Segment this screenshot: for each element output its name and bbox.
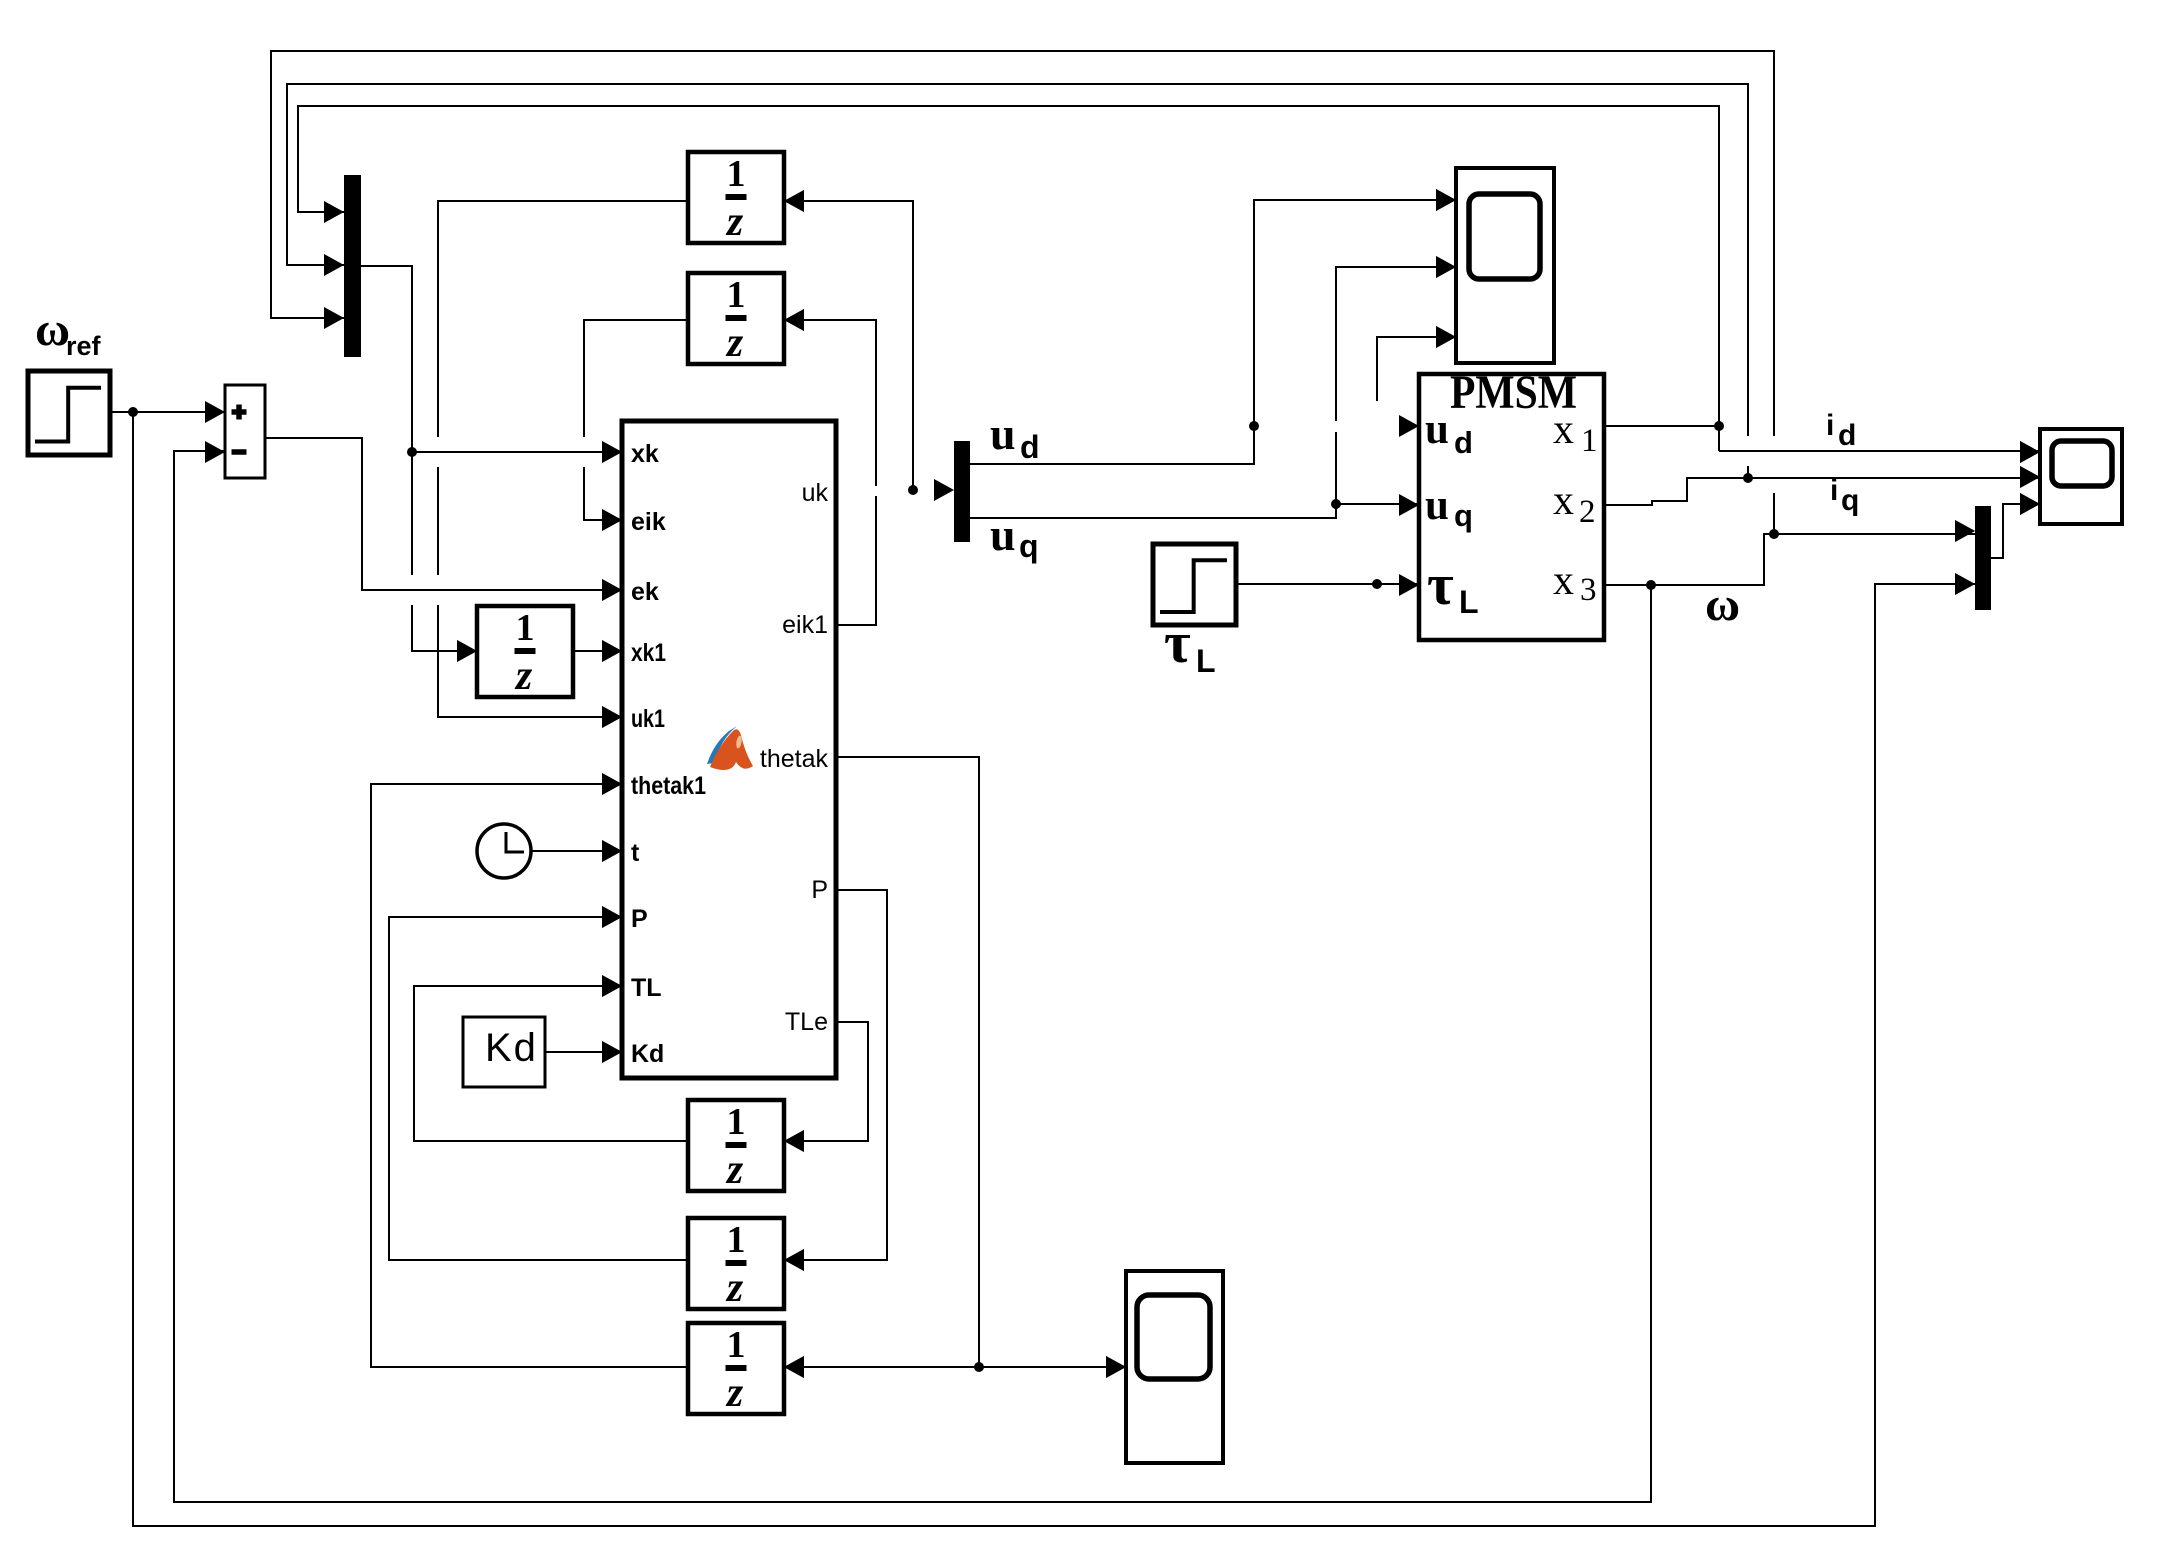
wire uq to PMSM uq — [970, 494, 1419, 518]
svg-text:τ: τ — [1427, 552, 1454, 617]
svg-text:Kd: Kd — [631, 1040, 664, 1068]
wire ud branch to PMSM (invisible in source figure; arrow only) — [1399, 415, 1419, 437]
svg-text:u: u — [1425, 482, 1449, 529]
step source wref — [28, 371, 110, 455]
wire D3 out to TL — [414, 975, 688, 1141]
wire x2 (iq) staircase to scope2 in2 — [1604, 466, 2040, 505]
svg-text:1: 1 — [727, 274, 746, 316]
svg-text:TLe: TLe — [785, 1008, 828, 1036]
svg-text:1: 1 — [727, 1324, 746, 1366]
svg-text:u: u — [990, 509, 1016, 560]
mux M1 — [324, 175, 361, 357]
svg-text:z: z — [725, 199, 744, 245]
svg-text:ref: ref — [66, 331, 102, 361]
svg-text:d: d — [1454, 425, 1473, 460]
wire wref feedback to mux2 in2 — [133, 412, 1975, 1526]
svg-text:2: 2 — [1579, 494, 1596, 530]
svg-text:uk1: uk1 — [631, 705, 665, 733]
unit delay D1 (uk to uk1) (1/z) — [688, 152, 804, 245]
label omega — [1705, 578, 1740, 631]
svg-text:3: 3 — [1580, 572, 1597, 608]
wire P out down to D4 — [784, 890, 887, 1271]
scope3 (thetak) — [1106, 1271, 1223, 1463]
svg-text:x: x — [1553, 407, 1574, 453]
svg-text:x: x — [1553, 558, 1574, 604]
wire id to scope2 in1 — [1719, 441, 2040, 463]
svg-text:z: z — [725, 1265, 744, 1311]
label iq — [1830, 474, 1859, 517]
svg-text:thetak: thetak — [760, 745, 829, 773]
svg-text:L: L — [1459, 584, 1479, 620]
wire uk to demux (horizontal invisible in source figure; dot and arrow only) — [908, 479, 954, 501]
svg-text:thetak1: thetak1 — [631, 772, 706, 800]
wire mux1 out to xk and to delay Dxk1 — [361, 266, 477, 662]
svg-text:z: z — [725, 1370, 744, 1416]
svg-text:ω: ω — [1705, 578, 1740, 631]
label ud — [990, 408, 1040, 465]
wire branch to xk input — [412, 441, 622, 463]
wire x1 to junction — [1604, 421, 1724, 431]
svg-text:L: L — [1196, 643, 1216, 679]
unit delay D3 (TLe to TL) (1/z) — [688, 1100, 804, 1193]
constant Kd — [463, 1017, 545, 1087]
svg-text:xk1: xk1 — [631, 639, 666, 667]
label wref — [35, 303, 102, 361]
controller input arrows — [602, 441, 622, 1063]
svg-text:z: z — [725, 1147, 744, 1193]
svg-text:u: u — [990, 408, 1016, 459]
wire D4 out to P — [389, 906, 688, 1260]
demux D — [954, 441, 970, 542]
gap artifact on eik1 vertical at uk crossing — [872, 486, 881, 496]
label id — [1826, 409, 1856, 452]
svg-text:1: 1 — [727, 1101, 746, 1143]
sum block — [205, 385, 265, 478]
svg-text:q: q — [1454, 498, 1473, 533]
wire omega feedback to sum minus — [174, 451, 1651, 1502]
svg-text:uk: uk — [802, 479, 829, 507]
MATLAB logo — [700, 718, 762, 780]
svg-text:t: t — [631, 839, 640, 867]
wire iq feedback top (to mux1 in2) — [287, 84, 1748, 478]
controller output port labels — [760, 479, 829, 1036]
wire D5 out to thetak1 — [371, 773, 688, 1367]
mux M2 — [1955, 506, 1991, 610]
wire clock to t — [531, 840, 622, 862]
svg-text:ω: ω — [35, 303, 70, 356]
unit delay Dxk1 (xk to xk1) (1/z) — [457, 606, 573, 699]
svg-text:P: P — [631, 905, 648, 933]
wire ud to scope1 in1 and PMSM ud — [970, 189, 1456, 464]
wire Kd to controller — [545, 1041, 622, 1063]
wire omega feedback top (to mux1 in3) — [271, 51, 1774, 534]
wire x3 (omega) to mux2 in1 — [1604, 520, 1975, 590]
step source tauL — [1153, 544, 1236, 625]
wire tauL to PMSM — [1236, 574, 1419, 596]
svg-text:z: z — [725, 320, 744, 366]
unit delay D5 (thetak to thetak1) (1/z) — [688, 1323, 804, 1416]
clock block — [477, 824, 531, 878]
scope2 (id,iq,omega/wref) — [2020, 429, 2122, 524]
wire D1 out to uk1 — [438, 201, 688, 728]
svg-text:x: x — [1553, 478, 1574, 524]
label uq — [990, 509, 1039, 564]
svg-text:ek: ek — [631, 578, 659, 606]
svg-text:d: d — [1838, 419, 1856, 452]
svg-text:q: q — [1841, 484, 1859, 517]
wire sum out to ek — [265, 438, 622, 601]
unit delay D2 (eik1 to eik) (1/z) — [688, 273, 804, 366]
svg-text:eik: eik — [631, 508, 666, 536]
wire uk branch up to D1 — [784, 190, 913, 490]
svg-text:1: 1 — [727, 153, 746, 195]
svg-text:z: z — [514, 653, 533, 699]
wire eik1 to D2 — [784, 309, 876, 625]
svg-text:1: 1 — [727, 1219, 746, 1261]
svg-text:xk: xk — [631, 440, 659, 468]
svg-text:u: u — [1425, 406, 1449, 453]
wire id feedback top (to mux1 in1) — [298, 106, 1719, 451]
svg-text:τ: τ — [1164, 610, 1191, 675]
gap artifact on uq vertical at ud crossing — [1333, 421, 1341, 432]
svg-text:Kd: Kd — [485, 1026, 538, 1070]
wire wref to sum plus — [110, 407, 225, 417]
MATLAB function block controller — [622, 421, 836, 1078]
svg-text:TL: TL — [631, 974, 662, 1002]
controller input port labels — [631, 440, 706, 1068]
wire scope1 in3 stub — [1377, 326, 1456, 401]
svg-text:1: 1 — [1581, 423, 1598, 459]
svg-text:i: i — [1830, 474, 1838, 507]
svg-text:q: q — [1019, 528, 1039, 564]
svg-text:eik1: eik1 — [782, 611, 828, 639]
label tauL — [1164, 610, 1216, 679]
wire thetak down to D5 and scope3 — [784, 757, 984, 1378]
wire crossing gaps — [403, 436, 1783, 605]
wire uq branch to scope1 in2 — [1336, 256, 1456, 504]
svg-text:i: i — [1826, 409, 1834, 442]
svg-text:1: 1 — [516, 607, 535, 649]
wire D2 out to eik — [584, 320, 688, 531]
wire TLe down to D3 — [784, 1022, 868, 1152]
wire Dxk1 out to xk1 — [572, 640, 622, 662]
wire thetak branch to scope3 — [979, 1356, 1126, 1378]
wire mux2 out to scope2 in3 — [1991, 493, 2040, 558]
PMSM block — [1419, 366, 1604, 640]
svg-text:P: P — [811, 876, 828, 904]
svg-text:d: d — [1020, 429, 1040, 465]
scope1 (ud,uq) — [1436, 168, 1554, 363]
unit delay D4 (P to P) (1/z) — [688, 1218, 804, 1311]
